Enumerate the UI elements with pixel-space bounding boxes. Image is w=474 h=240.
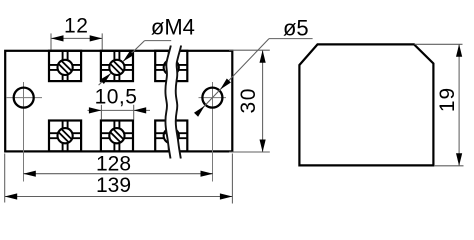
svg-text:øM4: øM4	[151, 15, 195, 40]
svg-text:139: 139	[96, 174, 131, 197]
svg-text:30: 30	[237, 87, 260, 113]
svg-text:19: 19	[436, 87, 459, 112]
svg-text:10,5: 10,5	[95, 85, 138, 108]
svg-text:128: 128	[96, 153, 131, 176]
svg-text:12: 12	[64, 15, 89, 38]
svg-text:ø5: ø5	[283, 16, 309, 41]
